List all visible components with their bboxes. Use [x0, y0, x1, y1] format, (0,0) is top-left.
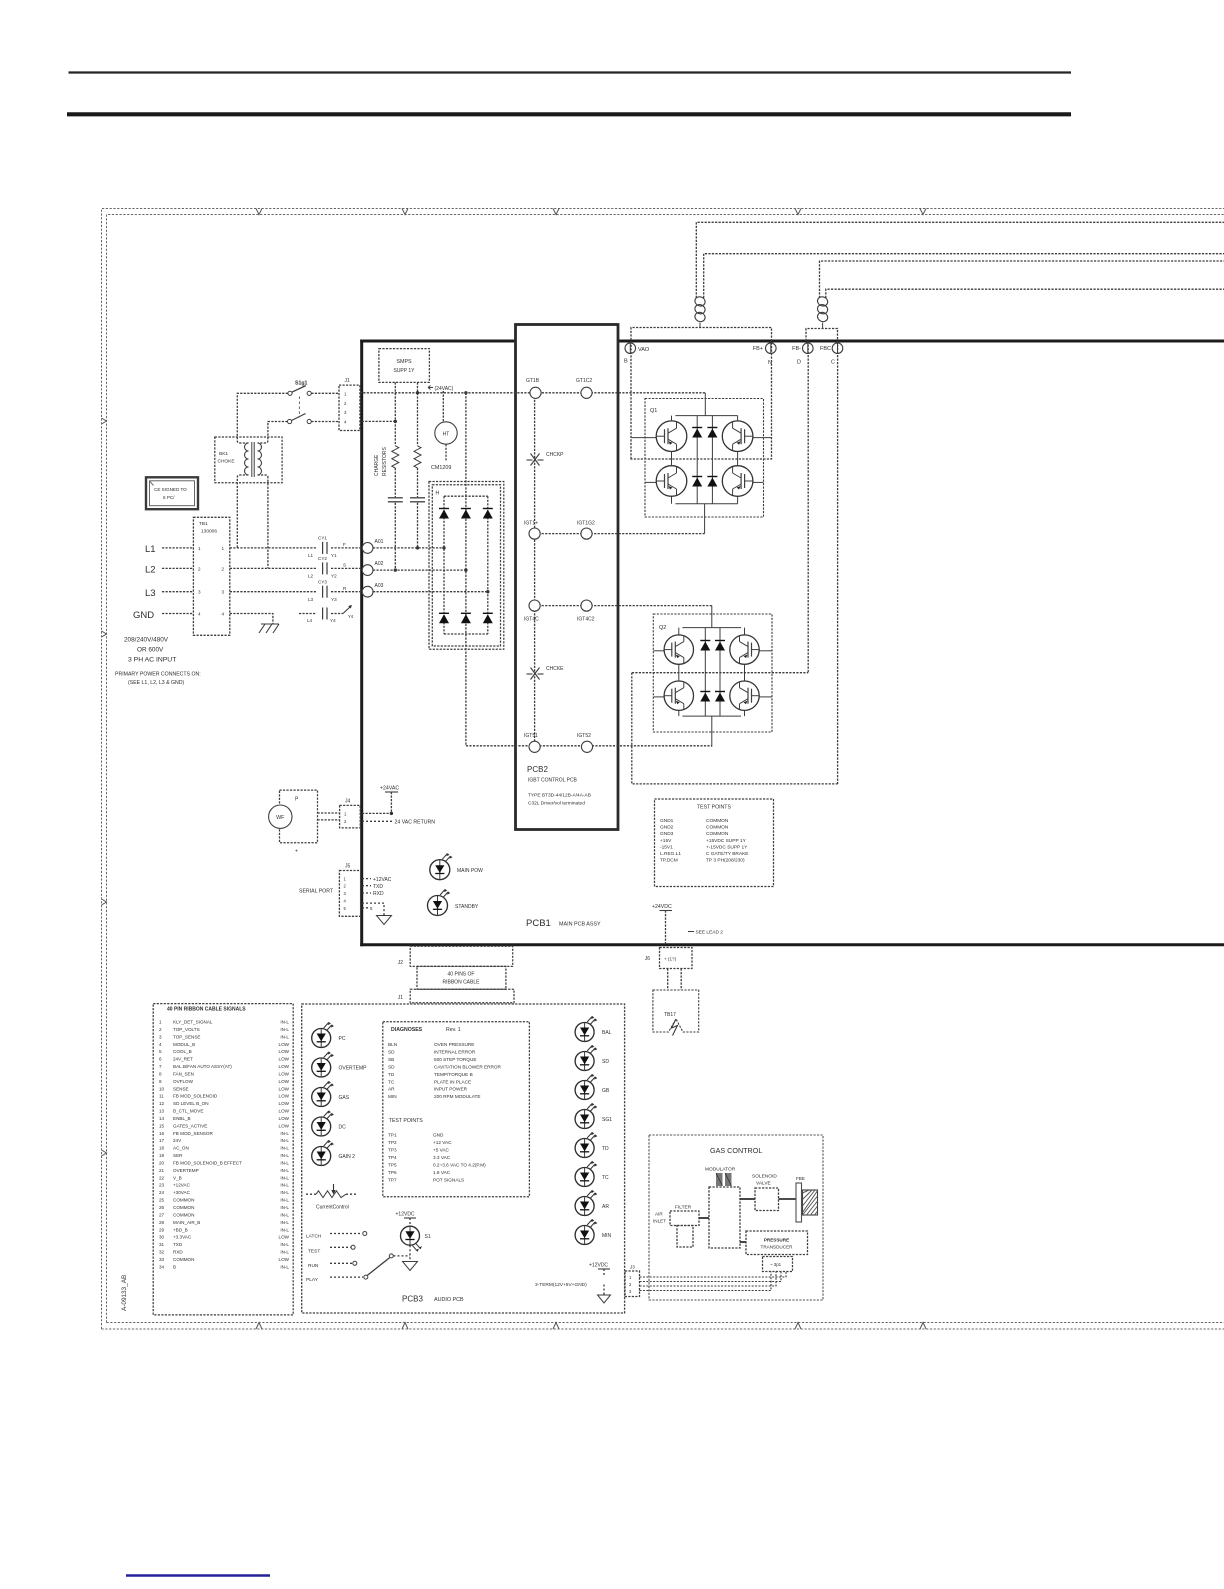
svg-text:19: 19: [159, 1153, 165, 1158]
fan motor HT: [435, 422, 457, 444]
svg-text:Y4: Y4: [330, 618, 336, 623]
wire J6 to TS17: [667, 969, 669, 991]
ribbon cable signal table: [153, 1004, 293, 1315]
svg-text:LOW: LOW: [279, 1042, 290, 1047]
svg-text:AR: AR: [602, 1204, 609, 1210]
wire L2 in: [162, 567, 193, 569]
svg-text:COMMON: COMMON: [173, 1198, 194, 1203]
wire switch poleB left: [268, 422, 288, 424]
junction phase taps: [442, 546, 445, 549]
svg-text:CE SIGNED TO: CE SIGNED TO: [154, 487, 187, 492]
svg-text:J2: J2: [398, 960, 404, 966]
svg-text:SD: SD: [388, 1049, 395, 1054]
terminal FB+ (N): [766, 343, 777, 354]
power flag 24VAC (fan): [428, 386, 433, 390]
svg-text:COOL_B: COOL_B: [173, 1049, 192, 1054]
svg-text:TEST POINTS: TEST POINTS: [697, 805, 731, 811]
LED L5 (GAIN 2): [312, 1147, 331, 1166]
svg-text:CHCKP: CHCKP: [546, 452, 564, 458]
LED R1 (BAL): [575, 1023, 594, 1042]
bridge column 2 wire: [465, 393, 467, 634]
air filter box: [670, 1211, 699, 1226]
svg-text:SOLENOID: SOLENOID: [752, 1174, 777, 1180]
svg-text:24V_RET: 24V_RET: [173, 1057, 193, 1062]
svg-text:TD: TD: [602, 1146, 609, 1152]
orifice plate: [796, 1183, 802, 1222]
svg-text:IN-L: IN-L: [280, 1146, 289, 1151]
svg-text:MAIN POW: MAIN POW: [457, 868, 483, 874]
wire J5 RXD: [362, 892, 371, 894]
terminal FBC (C): [832, 343, 843, 354]
capacitor CY1: [322, 542, 324, 554]
PCB3 board outline: [302, 1004, 625, 1313]
wire TB1-2 to PCB1 (L2): [230, 567, 316, 569]
svg-text:IN-L: IN-L: [280, 1168, 289, 1173]
svg-text:0.2~3.6 VAC TO 4.2(P.M): 0.2~3.6 VAC TO 4.2(P.M): [433, 1163, 486, 1168]
svg-text:L1: L1: [145, 544, 156, 555]
transistor Q2-1 (IGBT): [664, 635, 693, 664]
pressure transducer box: [746, 1231, 808, 1255]
svg-text:TP6: TP6: [388, 1170, 397, 1175]
svg-text:IGT4C: IGT4C: [524, 617, 539, 623]
wire J5 +12VAC: [362, 878, 371, 880]
wire SMPS left leg: [394, 382, 396, 445]
svg-text:PCB2: PCB2: [527, 765, 548, 774]
wire HT to label: [445, 444, 447, 461]
svg-text:+ (1?): + (1?): [664, 957, 677, 962]
terminal IGT1G2: [581, 528, 592, 539]
svg-text:PRESSURE: PRESSURE: [764, 1238, 789, 1243]
wire flag to fan HT: [442, 391, 444, 422]
svg-text:+-15VDC SUPP 1Y: +-15VDC SUPP 1Y: [706, 844, 748, 850]
svg-text:B_CTL_MOVE: B_CTL_MOVE: [173, 1109, 203, 1114]
svg-text:+15V: +15V: [660, 838, 672, 844]
solenoid valve box: [755, 1188, 779, 1211]
svg-text:GND3: GND3: [660, 831, 674, 837]
svg-text:VAO: VAO: [638, 347, 650, 353]
BK1 secondary winding: [258, 443, 262, 451]
svg-text:Q1: Q1: [650, 408, 657, 414]
svg-text:-15V1: -15V1: [660, 844, 673, 850]
BK1 core: [251, 442, 253, 477]
wire Q2 feed box: [806, 329, 838, 342]
svg-text:IGT4C2: IGT4C2: [577, 617, 595, 623]
rectifier bridge inner box: [432, 485, 500, 646]
svg-text:GB: GB: [602, 1088, 610, 1094]
wire R1 to C1: [394, 468, 396, 497]
bridge column 3 wire: [487, 496, 489, 634]
svg-text:GT1C2: GT1C2: [576, 378, 592, 384]
BK1 primary winding: [245, 443, 249, 451]
motor WF: [269, 805, 292, 828]
svg-text:INTERNAL ERROR: INTERNAL ERROR: [434, 1049, 476, 1054]
svg-text:FBE: FBE: [796, 1176, 805, 1181]
svg-text:3.3 VAC: 3.3 VAC: [433, 1155, 451, 1160]
svg-text:PRIMARY POWER CONNECTS ON:: PRIMARY POWER CONNECTS ON:: [115, 672, 201, 678]
svg-text:SD: SD: [602, 1059, 609, 1065]
svg-text:+: +: [295, 849, 298, 855]
capacitor C-charge-1: [388, 497, 403, 499]
svg-text:COMMON: COMMON: [706, 825, 729, 831]
diagnostic legend box: [383, 1022, 530, 1197]
svg-text:130006: 130006: [201, 529, 217, 535]
svg-text:4: 4: [198, 612, 201, 617]
svg-text:SEE LEAD 2: SEE LEAD 2: [696, 930, 724, 936]
terminal IGT52: [581, 741, 592, 752]
wire TB1-3 to PCB1 (L3): [230, 591, 316, 593]
ribbon cable box: [417, 966, 506, 989]
wire BK1 secondary leads: [258, 423, 268, 568]
wire bridge DC- down: [465, 634, 467, 746]
svg-text:Y3: Y3: [331, 597, 337, 602]
capacitor CY2: [322, 562, 324, 574]
svg-text:BLN: BLN: [388, 1042, 397, 1047]
svg-text:24 VAC RETURN: 24 VAC RETURN: [395, 820, 436, 826]
svg-text:TP 3 PH(208/230): TP 3 PH(208/230): [706, 858, 745, 864]
svg-text:LOW: LOW: [279, 1071, 290, 1076]
svg-text:RIBBON CABLE: RIBBON CABLE: [443, 980, 481, 986]
mode switch contacts: [330, 1233, 362, 1235]
IGBT module Q2 box: [653, 614, 772, 732]
svg-text:TP2: TP2: [388, 1140, 397, 1145]
diode D2a: [700, 642, 710, 651]
wire A02 to bridge: [373, 569, 466, 571]
svg-text:TC: TC: [602, 1175, 609, 1181]
svg-text:12: 12: [159, 1101, 165, 1106]
svg-text:RESISTORS: RESISTORS: [382, 447, 388, 476]
svg-text:IN-L: IN-L: [280, 1138, 289, 1143]
motor WF enclosure: [280, 790, 318, 843]
svg-text:D: D: [797, 360, 801, 366]
wire DC- rail (bridge to Q2): [466, 745, 712, 747]
header thin rule: [69, 71, 1072, 73]
svg-text:22: 22: [159, 1175, 165, 1180]
svg-text:IN-L: IN-L: [280, 1264, 289, 1269]
wire J1 pin4 feed: [362, 420, 396, 422]
diode D1c: [692, 478, 702, 487]
LED main power: [430, 860, 450, 880]
LED R7 (AR): [575, 1197, 594, 1216]
svg-text:IN-L: IN-L: [280, 1153, 289, 1158]
svg-text:L3: L3: [145, 588, 156, 599]
bridge column 1 wire: [443, 496, 445, 634]
svg-text:LOW: LOW: [279, 1049, 290, 1054]
svg-text:3-TERM(12V+5V+GND): 3-TERM(12V+5V+GND): [535, 1282, 587, 1288]
connector J2 (PCB1 ribbon header): [410, 946, 513, 966]
frame fold marks: [102, 209, 927, 1330]
svg-text:TOP_SENSE: TOP_SENSE: [173, 1034, 201, 1039]
svg-text:14: 14: [159, 1116, 165, 1121]
LED L2 (OVERTEMP): [312, 1058, 331, 1077]
svg-text:26: 26: [159, 1205, 165, 1210]
svg-text:S1: S1: [425, 1234, 431, 1240]
svg-text:CHCKE: CHCKE: [546, 666, 564, 672]
capacitor CY3: [322, 586, 324, 598]
wire GND in: [162, 613, 193, 615]
drawing frame border: [102, 209, 1224, 1330]
switch S1 pole A: [288, 391, 292, 395]
diode Q1 freewheel column wires: [696, 416, 698, 504]
header thick rule: [67, 112, 1071, 116]
svg-text:COMMON: COMMON: [706, 831, 729, 837]
diode BR-1: [439, 510, 449, 519]
svg-text:WF: WF: [276, 815, 285, 821]
ground chassis symbol: [259, 624, 265, 633]
terminal GT1C2: [581, 387, 592, 398]
svg-text:Y4: Y4: [348, 614, 354, 619]
svg-text:3: 3: [222, 590, 225, 595]
wire switch poleA right: [311, 392, 339, 394]
gas control enclosure: [649, 1135, 823, 1300]
PCB1 left edge: [360, 340, 363, 947]
LED S1: [401, 1226, 420, 1245]
svg-text:GND1: GND1: [660, 818, 674, 824]
wire J5 shield to ground: [362, 903, 384, 915]
svg-text:LOW: LOW: [279, 1057, 290, 1062]
Q2 top rail wire: [682, 627, 741, 629]
svg-text:B: B: [624, 359, 628, 365]
svg-text:SG1: SG1: [602, 1117, 612, 1123]
connector J6: [660, 948, 693, 969]
wire IGT1 (Q1 lower rail): [535, 533, 705, 535]
svg-text:TP5: TP5: [388, 1163, 397, 1168]
wire TB1-1 to PCB1 (L1): [230, 547, 316, 549]
svg-text:TEMP/TORQUE B: TEMP/TORQUE B: [434, 1072, 473, 1077]
LED R2 (SD): [575, 1052, 594, 1071]
svg-text:IN-L: IN-L: [280, 1131, 289, 1136]
svg-text:23: 23: [159, 1183, 165, 1188]
svg-text:BAL: BAL: [602, 1030, 612, 1036]
transistor Q1-2 (IGBT): [722, 421, 753, 452]
svg-text:TXD: TXD: [373, 884, 383, 890]
svg-text:POT SIGNALS: POT SIGNALS: [433, 1178, 464, 1183]
Q1 bottom rail wire: [675, 503, 737, 505]
svg-text:32: 32: [159, 1250, 165, 1255]
svg-text:LOW: LOW: [279, 1064, 290, 1069]
svg-text:5: 5: [159, 1049, 162, 1054]
svg-text:CAVITATION BLOWER ERROR: CAVITATION BLOWER ERROR: [434, 1064, 502, 1069]
svg-text:CM1209: CM1209: [431, 465, 451, 471]
resistor R-charge-1: [392, 446, 399, 468]
svg-text:FB MOD_SENSOR: FB MOD_SENSOR: [173, 1131, 214, 1136]
diode D1d: [707, 478, 717, 487]
gas valve body: [709, 1187, 740, 1248]
wire A01 to bridge: [373, 547, 444, 549]
potentiometer current control: [306, 1193, 316, 1195]
junction DC+ tap: [416, 391, 419, 394]
wire harness J3 to transducer: [640, 1272, 787, 1278]
svg-text:1: 1: [222, 546, 225, 551]
svg-text:AR: AR: [388, 1087, 395, 1092]
svg-text:COMMON: COMMON: [173, 1205, 194, 1210]
svg-text:MIN: MIN: [388, 1094, 397, 1099]
svg-text:MODULATOR: MODULATOR: [705, 1167, 736, 1173]
svg-text:IN-L: IN-L: [280, 1020, 289, 1025]
svg-text:2: 2: [198, 566, 201, 571]
svg-text:LOW: LOW: [279, 1079, 290, 1084]
svg-text:+12 VAC: +12 VAC: [433, 1140, 452, 1145]
svg-text:2: 2: [159, 1027, 162, 1032]
rectifier bridge outer box: [429, 482, 504, 650]
svg-text:FBC: FBC: [820, 346, 831, 352]
svg-text:LOW: LOW: [279, 1101, 290, 1106]
svg-text:24: 24: [159, 1190, 165, 1195]
svg-text:J1: J1: [398, 995, 404, 1001]
svg-text:IN-L: IN-L: [280, 1175, 289, 1180]
wire WF to J4 pin1: [318, 812, 340, 814]
svg-text:TC: TC: [388, 1079, 395, 1084]
svg-text:STANDBY: STANDBY: [455, 904, 479, 910]
svg-text:13: 13: [159, 1109, 165, 1114]
svg-text:IN-L: IN-L: [280, 1198, 289, 1203]
svg-text:1: 1: [159, 1020, 162, 1025]
wire R2 to C2: [417, 468, 419, 497]
svg-text:TRANSDUCER: TRANSDUCER: [761, 1245, 794, 1250]
svg-text:34: 34: [159, 1264, 165, 1269]
svg-text:+15VDC SUPP 1Y: +15VDC SUPP 1Y: [706, 838, 747, 844]
capacitor C-charge-2: [410, 497, 425, 499]
Q2 column wires: [678, 628, 680, 635]
svg-text:TD: TD: [388, 1072, 395, 1077]
Q1 column wires: [671, 416, 673, 421]
svg-text:DC: DC: [339, 1125, 347, 1131]
LED L4 (DC): [312, 1117, 331, 1136]
Q2 bottom rail wire: [682, 715, 741, 717]
svg-text:7: 7: [159, 1064, 162, 1069]
svg-text:3 PH AC INPUT: 3 PH AC INPUT: [128, 657, 176, 664]
svg-text:AC_ON: AC_ON: [173, 1146, 189, 1151]
svg-text:8: 8: [159, 1071, 162, 1076]
svg-text:SENSE: SENSE: [173, 1086, 189, 1091]
wire Q2 right mid vertical: [807, 341, 809, 673]
svg-text:TP3: TP3: [388, 1148, 397, 1153]
svg-text:MIN: MIN: [602, 1233, 612, 1239]
svg-text:(SEE L1, L2, L3 & GND): (SEE L1, L2, L3 & GND): [128, 680, 184, 686]
svg-text:FB MOD_SOLENOID_B EFFECT: FB MOD_SOLENOID_B EFFECT: [173, 1160, 242, 1165]
svg-text:J6: J6: [645, 956, 651, 962]
connector J4: [340, 805, 361, 828]
svg-text:GAS: GAS: [339, 1095, 350, 1101]
svg-text:GAS CONTROL: GAS CONTROL: [710, 1146, 762, 1155]
svg-text:Y1: Y1: [331, 553, 337, 558]
svg-text:VALVE: VALVE: [756, 1181, 771, 1187]
connector P1 (PCB3 ribbon header): [410, 989, 514, 1003]
svg-text:IN-L: IN-L: [280, 1242, 289, 1247]
terminal A02: [362, 565, 373, 576]
PCB1 bottom edge: [360, 943, 1224, 946]
svg-text:4: 4: [222, 612, 225, 617]
diode BR-2: [461, 510, 471, 519]
svg-text:TB17: TB17: [664, 1012, 676, 1018]
warning note box: [146, 477, 198, 509]
wire feeder C to right edge: [820, 261, 1224, 298]
svg-text:18: 18: [159, 1146, 165, 1151]
PCB2 internal vertical wire: [534, 393, 536, 747]
svg-text:OVFLOW: OVFLOW: [173, 1079, 194, 1084]
svg-text:GND: GND: [433, 1133, 444, 1138]
LED R5 (TD): [575, 1139, 594, 1158]
svg-text:LOW: LOW: [279, 1123, 290, 1128]
svg-text:PCB1: PCB1: [526, 918, 551, 929]
wire J5 TXD: [362, 885, 371, 887]
connector J5: [339, 871, 360, 917]
svg-text:MAIN PCB ASSY: MAIN PCB ASSY: [559, 922, 601, 928]
svg-text:J4: J4: [345, 798, 351, 804]
svg-text:L2: L2: [145, 565, 156, 576]
svg-text:29: 29: [159, 1227, 165, 1232]
diode Q2 freewheel column wires: [704, 628, 706, 717]
svg-text:FB+: FB+: [753, 346, 763, 352]
wire TB1-4 ground: [230, 614, 273, 624]
svg-text:IN-L: IN-L: [280, 1027, 289, 1032]
Q1 gate wires: [631, 437, 656, 439]
svg-text:TEST: TEST: [308, 1249, 320, 1255]
svg-text:~ 3p1: ~ 3p1: [770, 1262, 782, 1267]
svg-text:+12VDC: +12VDC: [396, 1212, 415, 1218]
svg-text:3: 3: [159, 1034, 162, 1039]
svg-text:2: 2: [222, 566, 225, 571]
LED R6 (TC): [575, 1168, 594, 1187]
svg-text:OR 600V: OR 600V: [137, 647, 164, 654]
svg-text:+30VAC: +30VAC: [173, 1190, 191, 1195]
test points legend box: [655, 799, 774, 887]
connector J1: [339, 385, 360, 430]
terminal A01: [362, 543, 373, 554]
svg-text:C GATE/TY BRAKE: C GATE/TY BRAKE: [706, 851, 748, 857]
svg-text:DIAGNOSES: DIAGNOSES: [391, 1027, 423, 1033]
svg-text:500 STEP TORQUE: 500 STEP TORQUE: [434, 1057, 476, 1062]
svg-text:IN-L: IN-L: [280, 1183, 289, 1188]
wire A03 to bridge: [373, 591, 488, 593]
svg-text:LOW: LOW: [279, 1086, 290, 1091]
svg-text:GND: GND: [133, 610, 154, 621]
svg-text:Q2: Q2: [659, 625, 666, 631]
svg-text:L2: L2: [308, 574, 314, 579]
wire 24VAC into PCB1: [362, 812, 391, 814]
wire solenoid to orifice: [779, 1198, 797, 1200]
svg-text:KLY_DET_SIGNAL: KLY_DET_SIGNAL: [173, 1020, 213, 1025]
svg-text:FB MOD_SOLENOID: FB MOD_SOLENOID: [173, 1094, 218, 1099]
PCB1 top edge: [360, 340, 516, 343]
svg-text:10: 10: [159, 1086, 165, 1091]
svg-text:IN-L: IN-L: [280, 1160, 289, 1165]
svg-text:PLATE IN PLACE: PLATE IN PLACE: [434, 1079, 471, 1084]
burner (hatched): [803, 1190, 818, 1215]
LED R4 (SG1): [575, 1110, 594, 1129]
ground S1: [403, 1262, 418, 1271]
svg-text:3: 3: [198, 590, 201, 595]
svg-text:IN-L: IN-L: [280, 1205, 289, 1210]
LED R8 (MIN): [575, 1226, 594, 1245]
diode BR-5: [461, 614, 471, 623]
svg-text:208/240V/480V: 208/240V/480V: [124, 637, 169, 644]
svg-text:+12VDC: +12VDC: [589, 1263, 608, 1269]
wire C2 to A01 line: [417, 503, 419, 548]
svg-text:F: F: [343, 542, 346, 547]
terminal A03: [362, 586, 373, 597]
svg-text:INPUT POWER: INPUT POWER: [434, 1087, 468, 1092]
svg-text:CY1: CY1: [318, 536, 327, 541]
svg-text:30: 30: [159, 1235, 165, 1240]
svg-text:Rev. 1: Rev. 1: [446, 1027, 461, 1033]
transducer connector: [763, 1257, 793, 1272]
svg-text:IN-L: IN-L: [280, 1212, 289, 1217]
terminal GT1B: [530, 387, 541, 398]
diode D2d: [715, 693, 725, 702]
svg-text:200 RPM MODULATE: 200 RPM MODULATE: [434, 1094, 481, 1099]
ground J5: [377, 916, 392, 925]
check point CHCKP: [527, 459, 533, 461]
